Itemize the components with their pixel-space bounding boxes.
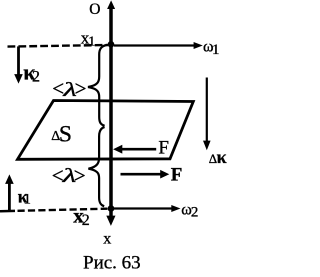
parallelogram plane dS — [18, 101, 194, 160]
svg-text:1: 1 — [212, 42, 220, 58]
delta kappa arrow (down, right side) — [206, 78, 208, 142]
svg-text:1: 1 — [88, 35, 95, 50]
node dot at x2 on axis — [108, 205, 115, 212]
level line x2: solid left segment — [0, 210, 15, 213]
brace lower lambda — [88, 127, 104, 206]
axis top arrowhead (up) — [107, 0, 115, 9]
dashed level line x1 — [8, 45, 109, 47]
svg-text:>: > — [74, 164, 86, 188]
svg-text:O: O — [89, 1, 100, 18]
svg-text:Рис. 63: Рис. 63 — [83, 253, 141, 274]
svg-text:F: F — [158, 138, 169, 159]
level line x2 dashed — [18, 209, 108, 211]
omega2 arrow — [114, 207, 172, 209]
svg-text:2: 2 — [32, 68, 40, 85]
svg-text:1: 1 — [24, 192, 31, 208]
svg-text:S: S — [59, 121, 72, 147]
kappa1 arrow (up, bottom left) — [8, 184, 11, 212]
axis Ox vertical line — [109, 5, 113, 218]
svg-text:<: < — [52, 77, 64, 101]
brace upper lambda — [88, 45, 107, 126]
node dot at x1 on axis — [108, 41, 115, 48]
svg-text:κ: κ — [217, 147, 227, 167]
force F arrow lower (points right) — [121, 173, 161, 176]
svg-text:2: 2 — [191, 205, 199, 221]
kappa2 arrow (down) — [17, 46, 20, 74]
svg-text:>: > — [75, 77, 87, 101]
svg-text:F: F — [171, 164, 183, 185]
omega1 arrow — [114, 44, 195, 46]
svg-text:2: 2 — [82, 212, 90, 229]
svg-text:x: x — [103, 230, 111, 247]
axis bottom arrowhead (down) — [106, 216, 115, 226]
force F arrow upper (points left to axis) — [122, 148, 157, 151]
